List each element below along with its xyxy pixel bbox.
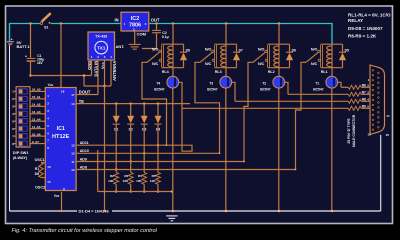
svg-text:VCC: VCC xyxy=(100,61,105,69)
wire R4 to rail xyxy=(143,184,145,191)
wire 6V feed RL4 xyxy=(172,24,174,45)
wire 9V rail from battery to S1 xyxy=(10,24,41,42)
svg-text:N/C: N/C xyxy=(311,62,318,66)
wire TX1 pin1 GND xyxy=(90,60,92,76)
diode D7 1N4007 xyxy=(233,44,243,67)
wire R5 to rail xyxy=(157,184,159,191)
svg-text:D7: D7 xyxy=(239,49,243,53)
node junction R3 rail xyxy=(129,190,132,193)
node riser junction RL4 xyxy=(166,144,168,146)
wire T1 base feed xyxy=(338,82,341,87)
relay RL1 contacts xyxy=(306,48,321,66)
wire Vcc horizontal xyxy=(84,85,111,87)
wire AD9 xyxy=(76,160,244,162)
svg-text:10K: 10K xyxy=(136,179,142,183)
svg-text:Fig. 4: Transmitter circuit fo: Fig. 4: Transmitter circuit for wireless… xyxy=(12,228,158,234)
node junction D1 AD xyxy=(115,168,118,171)
wire R7 to connector pin 3 xyxy=(361,93,373,95)
wire 9V rail from S1 to IC2 IN xyxy=(51,22,121,25)
svg-text:RL3: RL3 xyxy=(215,70,222,74)
svg-text:13: 13 xyxy=(367,133,371,137)
wire base T1 to R6 xyxy=(341,86,348,88)
capacitor C1 xyxy=(25,54,44,65)
node TE junction D3 xyxy=(143,102,146,105)
node TE junction D1 xyxy=(115,102,118,105)
wire TE line xyxy=(76,102,190,104)
transistor T1 BC547 xyxy=(313,68,337,92)
node 6V tap RL3 xyxy=(225,22,228,25)
node emitter rail junction T2 xyxy=(278,210,281,213)
wire ground rail left xyxy=(10,210,78,213)
transistor T3 BC547 xyxy=(207,68,231,92)
wires and pins of SW1 xyxy=(12,88,45,146)
svg-text:TX-433: TX-433 xyxy=(95,34,107,38)
wire 6V feed RL3 xyxy=(225,24,227,45)
svg-text:14: 14 xyxy=(71,102,75,106)
wire TE to D2 xyxy=(129,104,131,116)
wire R6 to connector pin 2 xyxy=(361,86,373,88)
svg-text:10K: 10K xyxy=(108,179,114,183)
svg-text:OUT: OUT xyxy=(151,17,160,22)
node ground rail junction x331 xyxy=(330,210,332,212)
diode D5 1N4007 xyxy=(339,44,349,67)
svg-text:D8: D8 xyxy=(186,49,190,53)
svg-text:R1: R1 xyxy=(35,167,40,171)
svg-text:14: 14 xyxy=(386,114,390,118)
svg-text:OSC2: OSC2 xyxy=(35,185,45,189)
svg-text:N/C: N/C xyxy=(258,62,265,66)
wire IC1 pin9 Vss to ground rail xyxy=(60,192,62,211)
wire 6V rail IC2 OUT to RL1 xyxy=(149,24,332,45)
node C1 ground junction xyxy=(29,74,32,77)
svg-text:(8-WAY): (8-WAY) xyxy=(13,156,28,160)
svg-text:BC547: BC547 xyxy=(154,87,164,91)
svg-text:T4: T4 xyxy=(156,81,160,85)
resistor R3 10K xyxy=(128,172,133,184)
node ground rail junction x225 xyxy=(224,210,226,212)
wire AD11 extension xyxy=(167,108,193,151)
svg-text:N/O: N/O xyxy=(205,48,212,52)
node ground rail junction x172 xyxy=(171,210,173,212)
wire T2 emitter to ground rail xyxy=(278,88,280,211)
wire TX1 pin3 Vcc xyxy=(103,60,105,86)
wire C2 to ground xyxy=(142,33,157,48)
svg-text:IC2: IC2 xyxy=(131,16,139,22)
svg-text:13: 13 xyxy=(71,144,75,148)
node junction D3 AD xyxy=(143,152,146,155)
relay RL3 contacts xyxy=(200,48,215,66)
battery BATT.1 xyxy=(7,37,31,49)
node junction D4 AD xyxy=(157,144,160,147)
svg-text:25 PIN ‘D’ TYPE: 25 PIN ‘D’ TYPE xyxy=(347,118,351,144)
resistor R4 10K xyxy=(142,172,147,184)
wire IC2 COM pin xyxy=(133,31,135,44)
svg-text:S1: S1 xyxy=(44,26,49,30)
svg-text:D5: D5 xyxy=(345,49,349,53)
node riser junction RL2 xyxy=(243,161,245,163)
svg-text:11: 11 xyxy=(71,160,75,164)
svg-text:AD10: AD10 xyxy=(80,149,89,153)
relay RL2 coil xyxy=(268,44,290,74)
node ground rail junction x278 xyxy=(277,210,279,212)
wire D2 to AD line xyxy=(129,124,131,161)
wire RL4 pole to AD riser xyxy=(142,62,167,145)
svg-text:IN: IN xyxy=(115,17,119,22)
wire T4 base feed xyxy=(179,82,182,108)
wire AD to R5 xyxy=(157,145,159,172)
svg-text:RL2: RL2 xyxy=(268,70,275,74)
relay RL4 contacts xyxy=(147,48,162,66)
svg-text:RL1-RL4 = 6V, 1C/O: RL1-RL4 = 6V, 1C/O xyxy=(348,12,391,17)
svg-text:15 .A1: 15 .A1 xyxy=(32,95,41,99)
wire TE to D3 xyxy=(143,104,145,116)
wire TX ground drop to rail xyxy=(103,86,105,211)
svg-text:25: 25 xyxy=(386,133,390,137)
svg-text:10: 10 xyxy=(71,168,75,172)
wire resistor ground rail xyxy=(98,190,172,192)
node emitter rail junction T1 xyxy=(331,210,334,213)
node emitter rail junction T4 xyxy=(172,210,175,213)
wire AD8 xyxy=(76,168,296,170)
svg-text:10K: 10K xyxy=(123,179,129,183)
node emitter rail junction T3 xyxy=(225,210,228,213)
svg-text:1M: 1M xyxy=(34,172,39,176)
svg-text:RL1: RL1 xyxy=(321,70,328,74)
wire R9 to connector pin 5 xyxy=(361,107,373,109)
wire connector shell to ground rail xyxy=(380,135,382,211)
relay RL4 coil xyxy=(162,44,184,74)
diode D4 1N4148 xyxy=(155,116,162,132)
svg-text:10 .A6: 10 .A6 xyxy=(32,132,41,136)
svg-text:12 .A4: 12 .A4 xyxy=(32,117,41,121)
wire riser x84 xyxy=(83,76,85,87)
svg-text:T1: T1 xyxy=(315,81,319,85)
pin numbers IC1 left 1-8 xyxy=(47,94,49,150)
switch SW1 DIP 8-way body xyxy=(16,87,30,147)
wire T2 base feed xyxy=(285,82,288,94)
svg-text:DIP SW1: DIP SW1 xyxy=(13,151,29,155)
svg-text:N/C: N/C xyxy=(205,62,212,66)
svg-text:HT12E: HT12E xyxy=(52,134,70,140)
wire OSC1 xyxy=(41,161,45,163)
node riser junction RL1 xyxy=(295,169,297,171)
svg-text:MALE CONNECTOR: MALE CONNECTOR xyxy=(352,114,356,147)
resistor R8 1.2K xyxy=(348,99,361,103)
wire T3 emitter to ground rail xyxy=(225,88,227,211)
resistor R7 1.2K xyxy=(348,92,361,96)
resistor R1 xyxy=(39,163,44,178)
svg-text:17: 17 xyxy=(71,93,75,97)
diode D6 1N4007 xyxy=(286,44,296,67)
module TX1 TX-433 xyxy=(88,32,115,60)
svg-text:ANTENNA: ANTENNA xyxy=(112,61,117,81)
svg-text:12: 12 xyxy=(71,152,75,156)
wire C1 to ground line xyxy=(29,62,31,76)
svg-text:D6: D6 xyxy=(292,49,296,53)
svg-text:T3: T3 xyxy=(209,81,213,85)
relay RL3 coil xyxy=(215,44,237,74)
wire 9V to IC1 pin18 xyxy=(60,24,62,88)
svg-text:0.1µ: 0.1µ xyxy=(162,35,169,39)
svg-text:7806: 7806 xyxy=(129,23,141,29)
node junction D2 AD xyxy=(129,160,132,163)
svg-text:BC547: BC547 xyxy=(313,87,323,91)
wire D3 to AD line xyxy=(143,124,145,153)
svg-text:AD11: AD11 xyxy=(80,141,89,145)
svg-text:R5: R5 xyxy=(152,174,156,178)
svg-text:+: + xyxy=(11,37,13,41)
svg-text:ANT.: ANT. xyxy=(116,44,125,49)
svg-text:16V: 16V xyxy=(37,61,44,65)
wire R8 to connector pin 4 xyxy=(361,100,373,102)
svg-text:R3: R3 xyxy=(124,174,128,178)
wire 6V to C2 xyxy=(155,24,157,30)
svg-text:BC547: BC547 xyxy=(260,87,270,91)
wire ground rail right xyxy=(112,210,381,213)
wire RL2 pole to AD riser xyxy=(244,62,253,161)
wire 6V feed RL2 xyxy=(278,24,280,45)
wire AD11 xyxy=(76,144,167,146)
svg-text:T2: T2 xyxy=(262,81,266,85)
wire base T2 to R7 xyxy=(288,93,348,95)
wire RL3 pole to AD riser xyxy=(195,62,220,153)
wire TX1 pin2 DATA to DOUT xyxy=(97,60,99,95)
wire T1 emitter to ground rail xyxy=(331,88,333,211)
relay RL1 coil xyxy=(321,44,343,74)
svg-text:BC547: BC547 xyxy=(207,87,217,91)
resistor R2 10K xyxy=(114,172,119,184)
svg-text:OSC1: OSC1 xyxy=(35,158,45,162)
svg-text:16 .A0: 16 .A0 xyxy=(32,88,41,92)
svg-text:RL4: RL4 xyxy=(162,70,170,74)
svg-text:COM: COM xyxy=(137,32,147,37)
node resistor rail to emitter xyxy=(171,190,174,193)
svg-text:TX1: TX1 xyxy=(97,45,106,50)
svg-text:AD9: AD9 xyxy=(80,157,87,161)
wire T3 base feed xyxy=(232,82,235,101)
node junction R2 rail xyxy=(115,190,118,193)
svg-text:IC1: IC1 xyxy=(57,126,65,132)
svg-text:16: 16 xyxy=(47,165,51,169)
wire AD to R2 xyxy=(115,170,117,173)
svg-text:R6-R9 = 1.2K: R6-R9 = 1.2K xyxy=(348,34,377,39)
svg-text:N/O: N/O xyxy=(258,48,265,52)
wire TE to D4 xyxy=(157,104,159,116)
IC IC1 HT12E xyxy=(45,88,76,191)
svg-text:BATT.1: BATT.1 xyxy=(17,44,31,49)
svg-text:+: + xyxy=(25,54,27,58)
svg-text:N/C: N/C xyxy=(152,62,159,66)
connector CON1 25-pin D-type shell xyxy=(370,65,385,134)
svg-text:RELAY: RELAY xyxy=(348,18,363,23)
transistor T4 BC547 xyxy=(154,68,178,92)
wire T4 emitter to ground rail xyxy=(172,88,174,211)
wire DOUT to TX1 DATA xyxy=(76,93,98,95)
wire AD10 xyxy=(76,152,220,154)
svg-text:R2: R2 xyxy=(110,174,114,178)
wire OSC2 xyxy=(41,176,45,178)
node ground rail junction x61.5 xyxy=(61,210,63,212)
wire R3 to rail xyxy=(129,184,131,191)
node 6V tap for C2 xyxy=(155,22,158,25)
wire D1 to AD line xyxy=(115,124,117,169)
relay RL2 contacts xyxy=(253,48,268,66)
wire ground line to TX1 GND pin xyxy=(31,74,92,76)
wire R2 to rail xyxy=(115,184,117,191)
switch S1 xyxy=(40,14,50,30)
ground under IC2 xyxy=(129,44,141,49)
svg-text:18: 18 xyxy=(61,89,65,93)
wire 9V to C1 xyxy=(29,24,31,58)
svg-text:VSS: VSS xyxy=(54,194,60,198)
svg-text:DATA IN: DATA IN xyxy=(93,61,98,77)
svg-text:14 .A2: 14 .A2 xyxy=(32,103,41,107)
wire AD to R3 xyxy=(129,162,131,173)
node 9V tap for IC1 Vdd xyxy=(60,22,63,25)
svg-text:Vdd: Vdd xyxy=(48,83,54,87)
diode D8 1N4007 xyxy=(180,44,190,67)
diode D3 1N4148 xyxy=(141,116,148,132)
svg-text:AD8: AD8 xyxy=(80,165,87,169)
svg-text:R4: R4 xyxy=(138,174,142,178)
transistor T2 BC547 xyxy=(260,68,284,92)
svg-text:13 .A3: 13 .A3 xyxy=(32,110,41,114)
connector CON1 pins xyxy=(372,70,379,131)
svg-text:15: 15 xyxy=(47,180,51,184)
node 6V tap RL2 xyxy=(278,22,281,25)
wire drop to resistor rail xyxy=(96,150,98,192)
svg-text:C2: C2 xyxy=(162,31,167,35)
svg-text:N/O: N/O xyxy=(311,48,318,52)
svg-text:10K: 10K xyxy=(150,179,156,183)
capacitor C2 xyxy=(152,30,169,39)
diode D1 1N4148 xyxy=(113,116,120,132)
wire RL1 pole to AD riser xyxy=(296,62,307,169)
node TE junction D2 xyxy=(129,102,132,105)
resistor R6 1.2K xyxy=(348,85,361,89)
wire battery negative to ground rail xyxy=(9,45,11,211)
wire base T3 to R8 xyxy=(235,100,348,102)
op-amp IC2 7806 regulator xyxy=(115,12,160,31)
node TE junction D4 xyxy=(157,102,160,105)
resistor R5 10K xyxy=(156,172,161,184)
node 9V tap for C1 xyxy=(29,22,32,25)
svg-text:11 .A5: 11 .A5 xyxy=(32,125,41,129)
svg-text:N/O: N/O xyxy=(152,48,159,52)
wire AD to R4 xyxy=(143,153,145,172)
wire TX1 pin4 antenna xyxy=(110,60,112,86)
ground symbol bottom xyxy=(166,216,177,221)
node 6V tap RL4 xyxy=(172,22,175,25)
node riser junction RL3 xyxy=(219,152,221,154)
diode D2 1N4148 xyxy=(127,116,134,132)
wire base T4 to R9 xyxy=(182,107,348,109)
node ground rail junction x104.5 xyxy=(104,210,106,212)
node junction R4 rail xyxy=(143,190,146,193)
node junction R5 rail xyxy=(157,190,160,193)
svg-text:GND: GND xyxy=(87,61,92,70)
wire D4 to AD line xyxy=(157,124,159,145)
node Vcc junction xyxy=(103,85,106,88)
svg-text:9 .A7: 9 .A7 xyxy=(32,140,39,144)
node junction ground line x84 xyxy=(83,74,86,77)
svg-text:D5-D8 = 1N4007: D5-D8 = 1N4007 xyxy=(348,26,383,31)
resistor R9 1.2K xyxy=(348,106,361,110)
wire TE to D1 xyxy=(115,104,117,116)
